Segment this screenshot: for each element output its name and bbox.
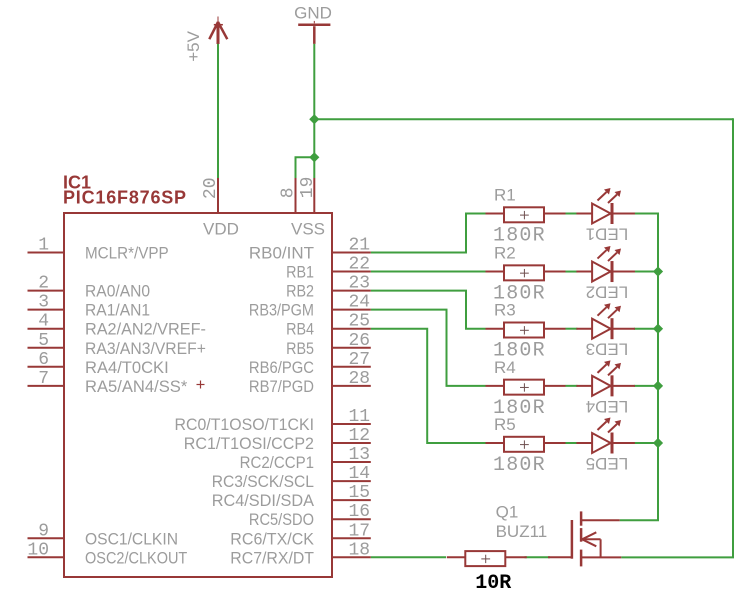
- resistor R2 180R: [486, 244, 566, 306]
- pin 27 RB6/PGC: [249, 350, 371, 377]
- LED LED3: [576, 303, 635, 359]
- resistor R5 180R: [486, 415, 566, 477]
- LED LED1: [576, 188, 635, 244]
- wire R3 to LED3: [565, 328, 577, 330]
- svg-text:7: 7: [38, 369, 49, 389]
- svg-text:17: 17: [349, 521, 371, 541]
- pin 22 RB1: [286, 255, 371, 282]
- wire 10R to gate: [525, 556, 551, 558]
- pin 14 RC3/SCK/SCL: [212, 464, 371, 491]
- svg-text:RB3/PGM: RB3/PGM: [249, 301, 314, 320]
- wire drain to column: [620, 519, 659, 521]
- resistor 10R gate resistor: [447, 551, 527, 595]
- wire VSS branch to pin 8: [296, 157, 315, 178]
- junction GND net at right branch: [309, 114, 319, 124]
- svg-text:LED2: LED2: [586, 283, 629, 302]
- wire RB4 pin 25 to R5: [371, 329, 486, 443]
- svg-text:R2: R2: [494, 244, 516, 263]
- pin 28 RB7/PGD: [249, 369, 371, 396]
- pin 24 RB3/PGM: [249, 293, 371, 320]
- svg-text:+5V: +5V: [184, 30, 203, 61]
- svg-text:26: 26: [349, 331, 371, 351]
- wire R1 to LED1: [565, 213, 577, 215]
- LED LED2: [576, 246, 635, 301]
- svg-text:RB1: RB1: [286, 263, 314, 282]
- svg-text:RC1/T1OSI/CCP2: RC1/T1OSI/CCP2: [184, 434, 314, 453]
- pin 11 RC0/T1OSO/T1CKI: [175, 407, 371, 434]
- pin 5 RA3/AN3/VREF+: [28, 331, 206, 358]
- svg-text:8: 8: [279, 187, 299, 198]
- svg-text:LED5: LED5: [586, 454, 629, 473]
- pin 21 RB0/INT: [249, 236, 371, 263]
- svg-text:12: 12: [349, 426, 371, 446]
- wire LED5 cathode to column: [634, 442, 658, 444]
- svg-text:GND: GND: [294, 4, 332, 23]
- resistor R1 180R: [486, 186, 566, 248]
- pin 15 RC4/SDI/SDA: [212, 483, 371, 510]
- svg-text:OSC2/CLKOUT: OSC2/CLKOUT: [85, 548, 187, 567]
- pin 25 RB4: [286, 312, 371, 339]
- wire LED1 cathode to column: [634, 213, 658, 215]
- IC origin cross: [197, 381, 205, 389]
- wire LED cathode column: [657, 213, 659, 521]
- svg-text:16: 16: [349, 502, 371, 522]
- pin 10 OSC2/CLKOUT: [27, 540, 187, 567]
- label GND: [294, 4, 332, 23]
- svg-text:2: 2: [38, 274, 49, 294]
- svg-text:27: 27: [349, 350, 371, 370]
- svg-text:RC2/CCP1: RC2/CCP1: [240, 453, 314, 472]
- ground GND symbol: [298, 21, 330, 44]
- junction LED3 cathode: [653, 324, 663, 334]
- wire LED4 cathode to column: [634, 385, 658, 387]
- wire R4 to LED4: [565, 385, 577, 387]
- svg-text:10R: 10R: [475, 572, 511, 595]
- label VDD: [203, 220, 239, 239]
- svg-text:BUZ11: BUZ11: [496, 522, 548, 541]
- svg-text:RA3/AN3/VREF+: RA3/AN3/VREF+: [85, 339, 206, 358]
- wire R5 to LED5: [565, 442, 577, 444]
- svg-text:LED1: LED1: [586, 225, 629, 244]
- svg-text:RB2: RB2: [286, 282, 314, 301]
- svg-text:MCLR*/VPP: MCLR*/VPP: [85, 244, 169, 263]
- svg-text:RA1/AN1: RA1/AN1: [85, 301, 150, 320]
- svg-text:5: 5: [38, 331, 49, 351]
- svg-text:22: 22: [349, 255, 371, 275]
- svg-text:180R: 180R: [493, 454, 546, 477]
- wire right edge vertical to source: [732, 118, 734, 557]
- pin 26 RB5: [286, 331, 371, 358]
- svg-text:4: 4: [38, 312, 49, 332]
- svg-text:RB7/PGD: RB7/PGD: [249, 377, 314, 396]
- svg-text:LED3: LED3: [586, 340, 629, 359]
- junction LED4 cathode: [653, 381, 663, 391]
- LED LED4: [576, 360, 635, 416]
- wire source to right edge: [621, 556, 734, 558]
- svg-text:LED4: LED4: [586, 397, 629, 416]
- svg-text:RB6/PGC: RB6/PGC: [249, 358, 314, 377]
- pin 2 RA0/AN0: [28, 274, 151, 301]
- wire RC7 pin 18 to 10R: [371, 556, 446, 558]
- svg-text:25: 25: [349, 312, 371, 332]
- wire GND net to right edge: [313, 118, 733, 120]
- wire LED3 cathode to column: [634, 328, 658, 330]
- transistor Q1 BUZ11: [548, 511, 621, 566]
- svg-text:RA0/AN0: RA0/AN0: [85, 282, 150, 301]
- svg-text:20: 20: [201, 177, 221, 199]
- svg-text:RC5/SDO: RC5/SDO: [249, 510, 314, 529]
- svg-text:R4: R4: [494, 358, 516, 377]
- resistor R4 180R: [486, 358, 566, 420]
- pin 20 VDD: [201, 177, 221, 213]
- pin 13 RC2/CCP1: [240, 445, 371, 472]
- pin 18 RC7/RX/DT: [230, 540, 371, 567]
- label +5V: [184, 30, 203, 61]
- pin 6 RA4/T0CKI: [28, 350, 169, 377]
- svg-text:6: 6: [38, 350, 49, 370]
- IC IC1 PIC16F876SP body: [64, 213, 332, 577]
- wire RB3 pin 24 to R4: [371, 310, 486, 386]
- label VSS: [291, 220, 325, 239]
- svg-text:19: 19: [298, 177, 318, 199]
- wire +5V to VDD pin 20: [217, 44, 219, 178]
- pin 19 VSS: [298, 177, 318, 213]
- svg-text:RB5: RB5: [286, 339, 314, 358]
- svg-text:RC6/TX/CK: RC6/TX/CK: [230, 529, 314, 548]
- svg-text:R5: R5: [494, 415, 516, 434]
- svg-text:OSC1/CLKIN: OSC1/CLKIN: [85, 529, 178, 548]
- junction LED5 cathode: [653, 438, 663, 448]
- wire R2 to LED2: [565, 271, 577, 273]
- wire RB0 pin 21 to R1: [371, 214, 486, 253]
- svg-text:R1: R1: [494, 186, 516, 205]
- pin 16 RC5/SDO: [249, 502, 371, 529]
- svg-text:RA4/T0CKI: RA4/T0CKI: [85, 358, 169, 377]
- svg-text:VSS: VSS: [291, 220, 325, 239]
- pin 3 RA1/AN1: [28, 293, 151, 320]
- svg-text:RC0/T1OSO/T1CKI: RC0/T1OSO/T1CKI: [175, 415, 315, 434]
- svg-text:RB0/INT: RB0/INT: [249, 244, 314, 263]
- pin 1 MCLR*/VPP: [28, 236, 169, 263]
- svg-text:VDD: VDD: [203, 220, 239, 239]
- svg-text:RA5/AN4/SS*: RA5/AN4/SS*: [85, 377, 188, 396]
- label IC1: [63, 173, 91, 193]
- pin 7 RA5/AN4/SS*: [28, 369, 188, 396]
- svg-text:13: 13: [349, 445, 371, 465]
- pin 17 RC6/TX/CK: [230, 521, 371, 548]
- svg-text:11: 11: [349, 407, 371, 427]
- svg-text:21: 21: [349, 236, 371, 256]
- svg-text:PIC16F876SP: PIC16F876SP: [63, 188, 187, 208]
- pin 12 RC1/T1OSI/CCP2: [184, 426, 371, 453]
- pin 9 OSC1/CLKIN: [28, 521, 179, 548]
- svg-text:14: 14: [349, 464, 371, 484]
- pin 23 RB2: [286, 274, 371, 301]
- wire LED2 cathode to column: [634, 271, 658, 273]
- svg-text:Q1: Q1: [496, 503, 519, 522]
- svg-text:RC7/RX/DT: RC7/RX/DT: [230, 548, 314, 567]
- junction LED2 cathode: [653, 266, 663, 276]
- label PIC16F876SP: [63, 188, 187, 208]
- wire GND net vertical: [313, 44, 315, 178]
- svg-text:18: 18: [349, 540, 371, 560]
- pin 8 VSS: [279, 178, 299, 213]
- svg-text:R3: R3: [494, 301, 516, 320]
- svg-text:24: 24: [349, 293, 371, 313]
- svg-text:RC3/SCK/SCL: RC3/SCK/SCL: [212, 472, 314, 491]
- svg-text:RA2/AN2/VREF-: RA2/AN2/VREF-: [85, 320, 206, 339]
- pin 4 RA2/AN2/VREF-: [28, 312, 206, 339]
- label Q1: [496, 503, 519, 522]
- resistor R3 180R: [486, 301, 566, 363]
- svg-text:10: 10: [27, 540, 49, 560]
- label BUZ11: [496, 522, 548, 541]
- svg-text:23: 23: [349, 274, 371, 294]
- supply +5V symbol: [209, 17, 227, 45]
- wire RB1 pin 22 to R2: [371, 271, 486, 273]
- svg-text:3: 3: [38, 293, 49, 313]
- svg-text:9: 9: [38, 521, 49, 541]
- wire RB2 pin 23 to R3: [371, 291, 486, 329]
- svg-text:1: 1: [38, 236, 49, 256]
- svg-text:RB4: RB4: [286, 320, 314, 339]
- svg-text:RC4/SDI/SDA: RC4/SDI/SDA: [212, 491, 315, 510]
- svg-text:15: 15: [349, 483, 371, 503]
- junction VSS pins: [309, 152, 319, 162]
- svg-text:28: 28: [349, 369, 371, 389]
- LED LED5: [576, 418, 635, 474]
